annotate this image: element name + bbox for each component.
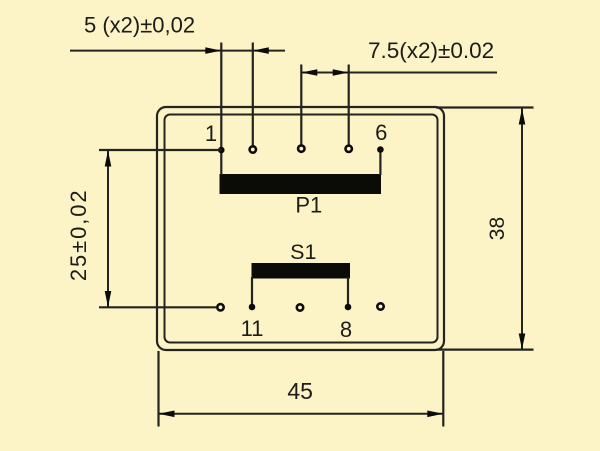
pin 11 (solder dot): [249, 304, 256, 311]
dimension line 45mm horizontal: [159, 413, 444, 415]
transformer body outer outline: [157, 107, 444, 350]
pin 8 (solder dot): [345, 304, 352, 311]
pin 4 (open hole): [346, 146, 352, 152]
svg-text:11: 11: [241, 316, 264, 341]
wire: pin 8 lead up to S1 bar: [347, 277, 349, 307]
pin 6 (solder dot): [377, 146, 384, 153]
arrowhead down at body bottom edge: [519, 334, 526, 350]
wire: pin 3 stem (extension line for 7.5mm dimension): [300, 65, 302, 145]
wire: pin 1 lead (extension line through pin 1 down to P1 bar): [220, 43, 222, 176]
svg-text:7.5(x2)±0.02: 7.5(x2)±0.02: [368, 38, 494, 63]
arrowhead left at body left edge: [159, 411, 175, 418]
arrowhead left at pin2 extension: [253, 47, 269, 54]
extension line from body bottom-left down to 45 dimension: [157, 351, 159, 427]
svg-text:6: 6: [375, 120, 387, 145]
svg-text:8: 8: [340, 317, 352, 342]
primary winding bar P1: [220, 174, 382, 194]
wire: pin 4 stem (extension line for 7.5mm dimension): [348, 65, 350, 145]
extension line from pin 1 row to left: [99, 149, 221, 151]
dimension line 25mm vertical: [107, 151, 109, 308]
pin hole bottom-left (open): [217, 304, 223, 310]
arrowhead down at bottom row: [105, 291, 112, 307]
dimension line 7.5mm pin pitch: [302, 72, 497, 74]
extension line from body bottom-right to 38 dimension: [436, 349, 534, 351]
arrowhead up at body top edge: [519, 109, 526, 125]
extension line from body bottom-right down to 45 dimension: [442, 351, 444, 427]
pin hole bottom-middle (open): [297, 304, 303, 310]
arrowhead right at pin1 extension: [205, 47, 221, 54]
dimension line 38mm vertical: [521, 109, 523, 350]
wire: pin 6 lead down to P1 bar: [379, 150, 381, 175]
wire: pin 11 lead up to S1 bar: [251, 277, 253, 307]
svg-text:45: 45: [287, 378, 313, 404]
pin 2 (open hole): [250, 146, 256, 152]
wire: pin 2 stem (extension line for 5mm dimension): [252, 43, 254, 146]
pin 1 (solder dot): [218, 147, 225, 154]
extension line from bottom pin row to left: [99, 306, 217, 308]
arrowhead up at pin1 row: [105, 151, 112, 167]
svg-text:38: 38: [486, 217, 509, 240]
pin 3 (open hole): [298, 145, 304, 151]
svg-text:1: 1: [205, 121, 217, 146]
transformer body inner outline: [165, 115, 438, 343]
svg-text:5 (x2)±0,02: 5 (x2)±0,02: [84, 13, 195, 38]
secondary winding bar S1: [252, 263, 351, 279]
arrowhead left-pointing at pin3 extension: [301, 69, 317, 76]
svg-text:25±0,02: 25±0,02: [66, 188, 91, 281]
arrowhead right-pointing at pin4 extension: [333, 69, 349, 76]
arrowhead right at body right edge: [427, 411, 443, 418]
pin hole bottom-right (open): [377, 303, 383, 309]
svg-text:P1: P1: [295, 193, 322, 218]
extension line from body top-right to 38 dimension: [436, 106, 534, 108]
dimension line 5mm pin pitch: [70, 50, 285, 52]
svg-text:S1: S1: [290, 240, 316, 264]
